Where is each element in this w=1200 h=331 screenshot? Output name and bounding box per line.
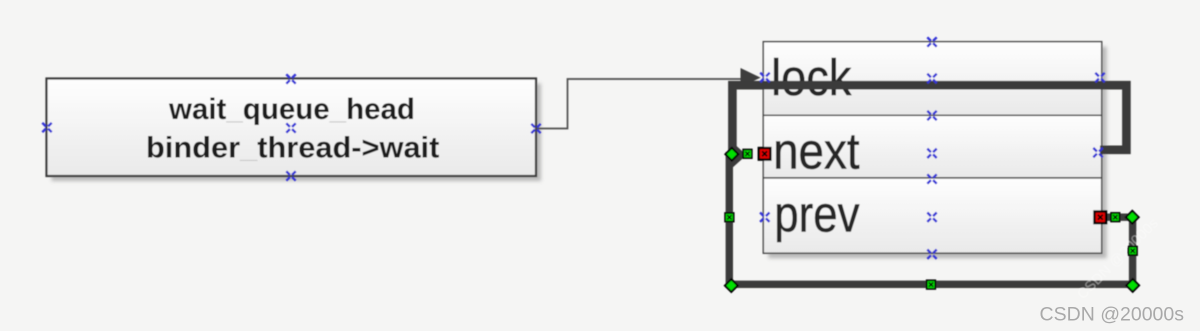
thick connector B (prev loop under bottom) [729, 152, 1132, 284]
green square handle near prev right [1111, 213, 1120, 222]
thick connector A (next loop over top) [732, 85, 1126, 152]
blue handle x: left box center [286, 123, 295, 132]
svg-text:lock: lock [771, 49, 852, 106]
blue handle x: left box right [531, 124, 540, 133]
struct box shadow [768, 47, 1106, 259]
blue handle x: divider2 center [927, 174, 936, 183]
green diamond: bottom right corner [1126, 279, 1139, 292]
blue handle x: struct top [927, 37, 936, 46]
blue handle x: struct bottom [927, 250, 936, 259]
blue handle x: lock center [927, 74, 936, 83]
struct row next [763, 115, 1101, 178]
thick connector A arrowhead [731, 141, 746, 169]
blue handle x: left box bottom [286, 171, 295, 180]
blue handle x: lock right [1095, 73, 1104, 82]
green square handle near next left [743, 150, 752, 159]
svg-text:wait_queue_head: wait_queue_head [168, 93, 415, 126]
svg-text:CSDN @20000s: CSDN @20000s [1040, 304, 1185, 326]
green square handle on left vertical [725, 213, 734, 222]
svg-text:binder_thread->wait: binder_thread->wait [146, 132, 439, 164]
green square handle on right vertical [1128, 247, 1137, 256]
blue handle x: left box left [42, 123, 51, 132]
green diamond: bottom left corner [725, 279, 738, 292]
left box shadow [52, 84, 542, 182]
blue handle x: next right [1093, 148, 1102, 157]
red square connection point at prev right [1095, 212, 1107, 224]
struct row lock [763, 42, 1101, 116]
green square handle on bottom segment [927, 280, 936, 289]
svg-text:next: next [773, 123, 860, 180]
blue handle x: lock left [760, 73, 769, 82]
green diamond: connector B start at next left [725, 148, 738, 161]
thin connector from left box to struct lock [536, 79, 744, 129]
blue handle x: prev left [760, 213, 769, 222]
blue handle x: divider1 center [927, 111, 936, 120]
blue handle x: prev center [927, 213, 936, 222]
blue handle x: left box top [286, 74, 295, 83]
svg-text:prev: prev [774, 186, 859, 243]
struct row prev [763, 178, 1101, 253]
thin connector arrowhead [741, 68, 761, 87]
left box wait_queue_head [47, 79, 537, 177]
blue handle x: next center [927, 149, 936, 158]
red square connection point at next left [759, 148, 771, 160]
green diamond: connector B end at prev right [1126, 211, 1139, 224]
